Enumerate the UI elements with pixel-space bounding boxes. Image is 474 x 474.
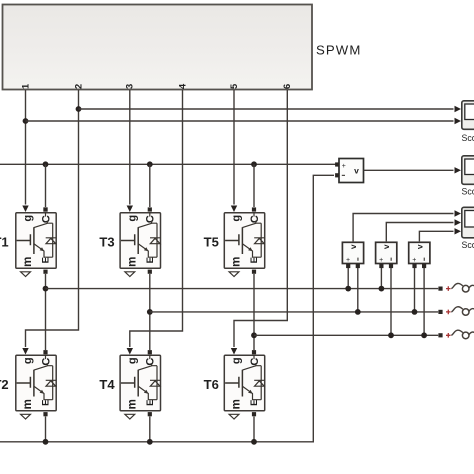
svg-text:3: 3 [125,84,135,89]
DC positive bus wire [0,163,336,165]
SPWM subsystem block [3,5,362,90]
junction dot Vab plus on phase A [345,286,351,292]
wire T2 emitter to DC negative bus [45,417,47,442]
transistor T6 [204,355,265,420]
wire node B vertical T3.E to T4.C [148,274,152,354]
Scope1 block [462,101,474,143]
wire Vac plus to phase A [380,268,382,289]
junction dot bus/T6 emitter [251,439,257,445]
svg-text:6: 6 [282,84,292,89]
wire node A vertical T1.E to T2.C [43,274,47,354]
wire port1 tap to Scope1 input 2 [26,118,462,124]
voltage measurement U_dc block [335,159,363,183]
transistor T3 [99,212,160,277]
wire SPWM port2 down [26,90,79,347]
svg-text:Scope: Scope [462,133,474,143]
wire port2 tap to Scope1 input 1 [79,106,462,112]
junction dot bus/T3 collector [147,161,153,167]
svg-text:Scope2: Scope2 [462,240,474,250]
series RL branch phase A [438,283,474,292]
wire T4 emitter to DC negative bus [149,417,151,442]
phase A wire [46,288,439,290]
junction dot bus/T1 collector [43,161,49,167]
transistor T5 [204,212,265,277]
wire SPWM port6 to T6 gate [231,90,287,355]
svg-text:T6: T6 [204,377,219,392]
wire Vbc minus to phase C [423,268,425,335]
wire Vbc plus to phase B [414,268,416,312]
svg-text:T5: T5 [204,235,219,250]
series RL branch phase C [438,330,474,339]
transistor T1 [0,212,56,277]
wire T5 collector to bus [252,164,256,211]
wire Vab output to Scope3 input1 [353,210,461,241]
svg-text:Scope1: Scope1 [462,187,474,197]
svg-text:T3: T3 [99,235,114,250]
junction dot port1/scope line [23,118,29,124]
wire voltage measurement output to Scope2 [364,167,462,173]
svg-text:5: 5 [229,84,239,89]
svg-text:4: 4 [177,83,187,89]
wire Vbc output to Scope3 input3 [419,228,461,241]
junction dot node B [147,309,153,315]
junction dot Vab minus on phase B [355,309,361,315]
svg-text:v: v [354,166,359,176]
svg-text:1: 1 [20,84,30,89]
svg-text:SPWM: SPWM [316,43,361,58]
wire T3 collector to bus [148,164,152,211]
wire T1 collector to bus [43,164,47,211]
phase B wire [150,311,438,313]
Scope2 block [462,156,474,197]
svg-text:T1: T1 [0,235,9,250]
junction dot Vac plus on phase A [379,286,385,292]
svg-text:T2: T2 [0,377,9,392]
svg-text:+: + [342,163,346,170]
C port square T1 [43,207,47,211]
svg-text:2: 2 [73,84,83,89]
svg-text:T4: T4 [99,377,115,392]
junction dot node A [43,286,49,292]
wire SPWM port5 to T5 gate [231,90,237,212]
voltage measurement Vab block [342,242,363,268]
wire SPWM port3 to T3 gate [127,90,133,212]
transistor T4 [99,355,160,420]
wire Vac output to Scope3 input2 [386,219,461,241]
wire Vab minus to phase B [357,268,359,312]
voltage measurement Vac block [376,242,397,268]
series RL branch phase B [438,307,474,316]
DC negative bus wire to voltage measurement minus [0,175,334,442]
voltage measurement Vbc block [409,242,430,268]
junction dot node C [251,332,257,338]
junction dot Vbc minus on phase C [421,332,427,338]
junction dot Vac minus on phase C [388,332,394,338]
Scope3 block [462,207,474,250]
wire SPWM port1 to T1 gate [22,90,28,212]
junction dot bus/T2 emitter [43,439,49,445]
junction dot bus/T4 emitter [147,439,153,445]
arrow into T2 gate [22,348,28,355]
wire Vab plus to phase A [347,268,349,289]
junction dot Vbc plus on phase B [412,309,418,315]
wire Vac minus to phase C [390,268,392,335]
junction dot bus/T5 collector [251,161,257,167]
junction dot port2/scope line [76,106,82,112]
transistor T2 [0,355,56,420]
wire T6 emitter to DC negative bus [253,417,255,442]
phase C wire [254,334,438,336]
wire node C vertical T5.E to T6.C [252,274,256,354]
wire SPWM port4 to T4 gate [127,90,183,355]
